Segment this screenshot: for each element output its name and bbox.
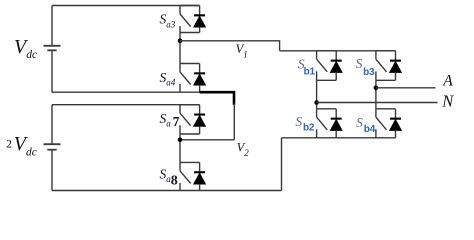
svg-text:2: 2 [6,138,12,150]
diode of Sa4: cathode stub [199,64,201,73]
diode of Sa8: cathode bar [194,171,205,173]
switch Sa3: left terminal stub [179,6,181,14]
switch Sb2: left terminal stub [316,109,318,117]
switch Sa8: top bar [180,161,200,163]
diode of Sa8: anode stub [199,184,201,191]
switch Sb3: left terminal stub [375,51,377,59]
wire: right leg link Sb3 to Sb4 [375,80,377,109]
battery 2V_dc: short negative plate [47,149,56,151]
label node V1 [236,42,248,59]
switch Sb3: lower terminal stub [375,71,377,80]
switch Sa4: left terminal stub [179,64,181,72]
svg-text:7: 7 [173,114,180,129]
diode of Sb3: cathode bar [390,60,401,62]
wire: V1 output run to H-bridge [180,41,280,51]
diode of Sa7: cathode stub [199,105,201,114]
switch Sa7: top bar [180,104,200,106]
wire: top loop left rail upper [51,6,53,46]
switch Sb1: lower terminal stub [316,71,318,80]
wire: bottom loop top side [52,104,200,106]
wire: link continues down [233,104,235,140]
svg-text:b4: b4 [364,124,376,135]
diode of Sb3: triangle anode pointing up [390,61,402,72]
wire: Sa3 emitter down to V1 node and on to Sa4 [179,33,181,64]
label switch Sa7 [160,111,180,129]
wire: bottom loop bottom side to H-bridge riser [52,190,282,192]
diode of Sa4: triangle anode pointing up [194,74,206,85]
label Vdc source [14,36,37,61]
svg-text:b3: b3 [363,67,375,78]
switch Sa4: blade [180,72,191,85]
wire: top loop bottom side [52,91,200,93]
switch Sa4: top bar [180,63,200,65]
switch Sb3: blade [376,59,387,72]
label switch Sa4 [160,70,176,88]
svg-text:N: N [441,92,454,111]
label switch Sb3 [356,56,375,78]
diode of Sa7: triangle anode pointing up [194,115,206,126]
svg-text:S: S [295,114,302,129]
wire: top loop top side [52,5,200,7]
wire: H-bridge top rail [280,50,396,52]
diode of Sb4: cathode stub [395,109,397,118]
switch Sb1: bottom bar [317,79,337,81]
diode of Sa3: anode stub [199,27,201,33]
svg-text:A: A [442,73,453,90]
diode of Sb4: anode stub [395,130,397,138]
switch Sa7: lower terminal stub [179,125,181,134]
diode of Sb1: triangle anode pointing up [330,61,342,72]
switch Sa4: lower terminal stub [179,84,181,92]
diode of Sb1: cathode stub [335,51,337,60]
battery V_dc: long positive plate [44,45,61,47]
switch Sa3: top bar [180,5,200,7]
switch Sa7: bottom bar [180,133,200,135]
switch Sb4: top bar [376,108,396,110]
node A junction dot [374,86,379,91]
node V2 junction dot [178,138,183,143]
switch Sb2: top bar [317,108,337,110]
diode of Sb4: triangle anode pointing up [390,119,402,130]
wire: left leg link Sb1 to Sb2 [316,80,318,109]
wire: bottom loop left rail upper [51,105,53,144]
label output A [442,73,453,90]
switch Sb2: lower terminal stub [316,129,318,138]
switch Sb4: blade [376,117,387,130]
label switch Sb4 [356,115,376,135]
diode of Sb2: anode stub [335,130,337,138]
wire: top loop left rail lower [51,51,53,92]
switch Sa7: left terminal stub [179,105,181,113]
diode of Sa3: triangle anode pointing up [194,16,206,27]
diode of Sa3: cathode bar [194,14,205,16]
label 2Vdc source [6,133,37,158]
wire: riser from bottom wire to H-bridge bottom rail [281,138,283,191]
switch Sb4: left terminal stub [375,109,377,117]
svg-text:8: 8 [171,173,178,188]
switch Sa3: blade [180,14,191,27]
switch Sb1: blade [317,59,328,72]
svg-text:S: S [356,56,363,71]
switch Sa7: blade [180,113,191,126]
diode of Sa3: cathode stub [199,6,201,15]
battery V_dc: short negative plate [47,49,56,51]
diode of Sa7: anode stub [199,126,201,134]
diode of Sb3: anode stub [395,72,397,80]
switch Sa8: blade [180,171,191,184]
svg-text:S: S [356,115,363,130]
wire: thick link from Sa4 emitter right then down [200,92,234,105]
label switch Sb2 [295,114,315,134]
wire: link into V2 node [180,139,234,141]
node N junction dot [314,100,319,105]
diode of Sb2: cathode bar [331,118,342,120]
switch Sa3: bottom bar [180,32,200,34]
diode of Sb2: triangle anode pointing up [330,119,342,130]
node V1 junction dot [178,39,183,44]
switch Sa8: left terminal stub [179,162,181,170]
switch Sb3: top bar [376,50,396,52]
wire: bottom loop left rail lower [51,150,53,190]
wire: Sa7 emitter down to V2 node and on to Sa8 [179,134,181,162]
label switch Sa8 [160,166,178,188]
wire: output line A [376,87,436,89]
label output N [441,92,454,111]
switch Sb2: blade [317,117,328,130]
switch Sa8: lower terminal stub [179,183,181,191]
diode of Sa8: triangle anode pointing up [194,173,206,184]
diode of Sb1: cathode bar [331,60,342,62]
switch Sb4: lower terminal stub [375,129,377,138]
diode of Sb3: cathode stub [395,51,397,60]
diode of Sa7: cathode bar [194,114,205,116]
switch Sb3: bottom bar [376,79,396,81]
wire: H-bridge bottom rail [282,137,396,139]
diode of Sb1: anode stub [335,72,337,80]
label node V2 [237,140,250,157]
diode of Sb4: cathode bar [390,118,401,120]
label switch Sa3 [160,12,176,30]
diode of Sb2: cathode stub [335,109,337,118]
diode of Sa4: anode stub [199,85,201,92]
switch Sb1: left terminal stub [316,51,318,59]
diode of Sa8: cathode stub [199,162,201,171]
svg-text:b1: b1 [304,67,316,78]
label switch Sb1 [298,57,316,78]
wire: output line N [317,102,438,104]
battery 2V_dc: long positive plate [44,143,61,145]
switch Sa3: lower terminal stub [179,26,181,33]
svg-text:b2: b2 [303,123,315,134]
switch Sb1: top bar [317,50,337,52]
diode of Sa4: cathode bar [194,72,205,74]
